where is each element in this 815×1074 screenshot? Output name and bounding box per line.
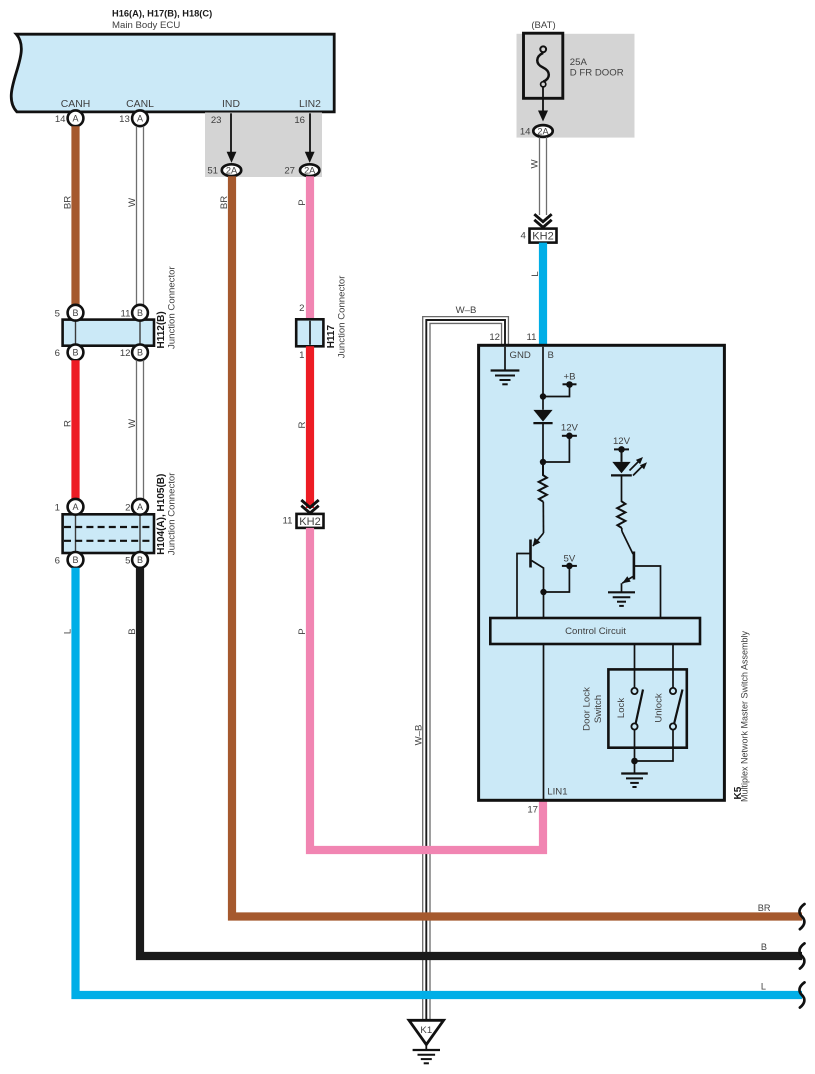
resistor R2 — [617, 501, 625, 528]
svg-text:Control Circuit: Control Circuit — [565, 626, 626, 637]
svg-text:W: W — [127, 418, 138, 428]
ground Q2 — [608, 592, 635, 606]
wire W CANL to H112 (white wire) — [137, 126, 144, 305]
svg-text:11: 11 — [283, 515, 293, 526]
B lead into circuit — [542, 347, 544, 397]
svg-text:B: B — [127, 628, 138, 634]
LIN2 lead wire — [294, 113, 314, 163]
svg-text:L: L — [761, 982, 766, 992]
junction + ground below switches — [621, 758, 648, 787]
svg-text:12: 12 — [489, 332, 500, 343]
switch Lock — [631, 688, 643, 761]
svg-text:B: B — [72, 348, 78, 358]
pin 14 connector A — [55, 110, 84, 126]
H117 labels — [326, 275, 348, 358]
svg-text:A: A — [72, 502, 78, 512]
svg-text:K1: K1 — [420, 1025, 432, 1036]
wire L KH2 to switch assembly — [539, 243, 547, 346]
svg-text:W: W — [530, 159, 541, 169]
svg-text:P: P — [297, 628, 308, 634]
switch labels — [582, 687, 665, 731]
squiggle BR — [799, 904, 804, 929]
fuse lead + arrow — [538, 87, 548, 121]
wire BR long IND to bottom right — [232, 176, 802, 916]
wire L H104 to bottom — [76, 568, 803, 995]
svg-text:12V: 12V — [561, 422, 579, 433]
IND lead wire — [211, 113, 237, 163]
svg-text:+B: +B — [563, 372, 575, 383]
H104 labels — [156, 472, 178, 555]
svg-text:BR: BR — [219, 196, 230, 209]
gray harness block under IND/LIN2 — [205, 113, 322, 178]
12V terminal right — [613, 436, 631, 462]
svg-text:11: 11 — [527, 332, 537, 343]
svg-text:A: A — [137, 114, 143, 124]
svg-text:6: 6 — [55, 348, 60, 359]
svg-text:12V: 12V — [613, 436, 631, 447]
H104 pin 1 A — [55, 499, 84, 515]
svg-text:12: 12 — [120, 348, 131, 359]
wire P KH2 to LIN1 pin17 — [310, 528, 543, 850]
transistor Q1 — [517, 502, 544, 618]
svg-text:CANH: CANH — [61, 99, 90, 110]
wire BR CANH to H112 — [71, 126, 79, 305]
ECU title — [112, 9, 212, 31]
svg-text:Main Body ECU: Main Body ECU — [112, 20, 180, 31]
svg-text:2: 2 — [125, 502, 130, 513]
wire W fuse to KH2 (white wire) — [540, 137, 547, 215]
transistor Q2 — [622, 528, 661, 618]
chevron connector into KH2 (mid) — [301, 500, 318, 513]
wire P LIN2 to H117 — [306, 176, 314, 319]
H112 pin 11 B — [121, 305, 148, 321]
svg-text:D FR DOOR: D FR DOOR — [570, 67, 624, 78]
svg-text:CANL: CANL — [126, 99, 154, 110]
svg-text:2A: 2A — [226, 166, 238, 176]
5V terminal — [540, 554, 577, 619]
svg-text:14: 14 — [55, 114, 66, 125]
door lock switch box — [608, 669, 686, 747]
lock lead — [634, 644, 636, 688]
resistor R1 — [539, 462, 547, 502]
svg-text:(BAT): (BAT) — [531, 20, 555, 31]
chevron connector into KH2 (right) — [534, 214, 551, 227]
H112 pin 6 B — [55, 345, 84, 361]
unlock lead — [672, 644, 674, 688]
KH2 box pin 11 — [283, 514, 324, 528]
svg-text:B: B — [137, 348, 143, 358]
svg-text:IND: IND — [222, 99, 240, 110]
svg-text:R: R — [63, 420, 74, 427]
svg-text:Junction Connector: Junction Connector — [167, 472, 178, 555]
svg-text:BR: BR — [63, 196, 74, 209]
control circuit box — [490, 618, 700, 644]
squiggle L — [799, 982, 804, 1007]
H112 pin 12 B — [120, 345, 148, 361]
svg-text:5: 5 — [55, 308, 60, 319]
fuse 25A D FR DOOR — [524, 33, 624, 98]
connector 27 2A — [284, 164, 319, 176]
svg-text:B: B — [548, 350, 554, 361]
H112 labels — [156, 266, 178, 349]
svg-text:R: R — [297, 421, 308, 428]
svg-text:W: W — [127, 197, 138, 207]
svg-text:23: 23 — [211, 115, 222, 126]
svg-text:LIN1: LIN1 — [547, 786, 567, 797]
svg-text:13: 13 — [119, 114, 130, 125]
svg-text:B: B — [72, 308, 78, 318]
svg-text:2A: 2A — [537, 126, 549, 136]
wire R H117 to KH2 — [306, 346, 314, 508]
svg-text:6: 6 — [55, 555, 60, 566]
svg-text:L: L — [530, 271, 541, 277]
squiggle B — [799, 943, 804, 968]
svg-text:51: 51 — [207, 165, 218, 176]
K5 labels — [733, 630, 750, 802]
wire W-B ground wire — [423, 317, 509, 1020]
svg-text:16: 16 — [294, 115, 305, 126]
svg-text:A: A — [72, 114, 78, 124]
svg-text:KH2: KH2 — [299, 516, 320, 528]
LIN1 internal line — [543, 644, 545, 800]
svg-text:GND: GND — [510, 350, 531, 361]
svg-text:B: B — [137, 555, 143, 565]
svg-text:Lock: Lock — [616, 698, 627, 718]
svg-text:Unlock: Unlock — [654, 693, 665, 723]
svg-text:27: 27 — [284, 165, 295, 176]
svg-text:W–B: W–B — [414, 725, 425, 746]
svg-text:14: 14 — [520, 126, 531, 137]
H104 pin 5 B — [125, 552, 148, 568]
svg-text:1: 1 — [55, 502, 60, 513]
svg-text:2A: 2A — [304, 166, 316, 176]
svg-text:Switch: Switch — [593, 695, 604, 723]
H104 pin 2 A — [125, 499, 148, 515]
svg-text:B: B — [761, 942, 767, 952]
wire W H112 to H104 (white wire) — [137, 360, 144, 499]
svg-text:1: 1 — [299, 350, 304, 361]
+B terminal — [540, 372, 577, 400]
GND internal ground — [491, 347, 520, 385]
svg-text:LIN2: LIN2 — [299, 99, 321, 110]
svg-text:A: A — [137, 502, 143, 512]
svg-text:Junction Connector: Junction Connector — [167, 266, 178, 349]
12V terminal left — [540, 422, 579, 465]
svg-text:P: P — [297, 199, 308, 205]
svg-text:W–B: W–B — [456, 305, 477, 316]
KH2 box pin 4 — [520, 229, 556, 243]
svg-text:KH2: KH2 — [532, 231, 553, 243]
svg-text:BR: BR — [758, 903, 771, 913]
ground point K1 — [409, 1020, 444, 1063]
svg-text:H117: H117 — [326, 325, 337, 349]
svg-text:17: 17 — [527, 804, 538, 815]
switch Unlock — [635, 688, 683, 761]
connector 14 2A — [520, 125, 553, 137]
H104 pin 6 B — [55, 552, 84, 568]
svg-text:Multiplex Network Master Switc: Multiplex Network Master Switch Assembly — [740, 630, 750, 802]
junction connector H112(B) — [63, 320, 154, 346]
svg-text:B: B — [137, 308, 143, 318]
svg-text:H104(A), H105(B): H104(A), H105(B) — [156, 474, 167, 555]
svg-text:5: 5 — [125, 555, 130, 566]
svg-text:L: L — [63, 628, 74, 634]
svg-text:2: 2 — [299, 303, 304, 314]
svg-text:H112(B): H112(B) — [156, 311, 167, 348]
LED D2 — [611, 457, 647, 502]
svg-text:H16(A), H17(B), H18(C): H16(A), H17(B), H18(C) — [112, 9, 212, 19]
svg-text:4: 4 — [520, 230, 526, 241]
wire R H112 to H104 — [71, 360, 79, 499]
svg-text:Junction Connector: Junction Connector — [337, 275, 348, 358]
ECU block H16/H17/H18 — [11, 34, 334, 112]
svg-text:11: 11 — [121, 308, 131, 319]
svg-text:Door Lock: Door Lock — [582, 687, 593, 731]
wire B H104 to bottom — [140, 568, 802, 956]
gray block fuse — [517, 34, 635, 138]
junction connector H104(A) H105(B) — [63, 514, 154, 553]
pin 13 connector A — [119, 110, 148, 126]
junction connector H117 — [296, 319, 323, 346]
MULTIPLEX SWITCH ASSEMBLY BOX K5 — [479, 345, 725, 800]
svg-text:B: B — [72, 555, 78, 565]
diode D1 — [533, 397, 552, 463]
H112 pin 5 B — [55, 305, 84, 321]
connector 51 2A — [207, 164, 241, 176]
